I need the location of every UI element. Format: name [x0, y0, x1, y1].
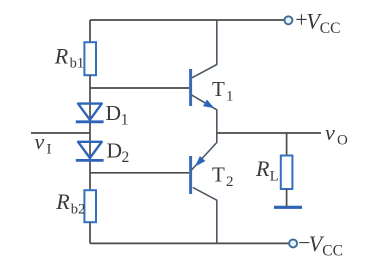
label D1 [106, 101, 129, 129]
resistor Rb2 [84, 190, 96, 222]
svg-text:v: v [325, 120, 335, 145]
svg-text:b2: b2 [71, 201, 86, 217]
svg-text:1: 1 [226, 89, 234, 105]
wire bottom rail [90, 242, 289, 244]
wire output rail [217, 132, 321, 134]
label vI [35, 129, 52, 157]
transistor T1 [191, 20, 217, 133]
wire RL top stub [286, 133, 288, 156]
terminal +VCC [284, 16, 292, 24]
transistor T2 [191, 133, 217, 243]
svg-text:I: I [47, 141, 52, 157]
svg-text:1: 1 [121, 112, 129, 129]
wire vI input stub [31, 132, 90, 134]
label D2 [107, 138, 130, 166]
label vO [325, 120, 348, 149]
label +VCC [295, 7, 340, 37]
svg-text:O: O [337, 133, 348, 149]
svg-text:CC: CC [322, 242, 343, 259]
svg-text:D: D [107, 138, 123, 162]
wire left vertical (top rail to Rb1) [89, 20, 91, 43]
svg-text:R: R [55, 189, 70, 214]
svg-text:R: R [255, 156, 270, 181]
svg-text:D: D [106, 101, 122, 125]
svg-text:T: T [212, 162, 225, 186]
svg-text:T: T [212, 77, 225, 101]
svg-text:v: v [35, 129, 45, 154]
wire T2 base [90, 172, 189, 174]
label Rb1 [54, 43, 84, 71]
wire top rail [90, 19, 285, 21]
label -VCC [298, 230, 343, 259]
svg-text:CC: CC [320, 20, 341, 37]
ground [274, 206, 302, 209]
svg-text:b1: b1 [70, 56, 85, 72]
wire T1 base [90, 87, 189, 89]
wire RL bottom stub [286, 189, 288, 206]
svg-text:2: 2 [122, 149, 130, 166]
resistor Rb1 [84, 42, 96, 75]
label T2 [212, 162, 234, 189]
svg-text:R: R [54, 43, 69, 68]
label T1 [212, 77, 234, 104]
diode D2 [76, 142, 104, 161]
label Rb2 [55, 189, 85, 217]
svg-text:L: L [270, 168, 279, 184]
wire left vertical (Rb2 to bottom rail) [89, 222, 91, 243]
svg-text:2: 2 [226, 174, 234, 190]
label RL [255, 156, 279, 184]
terminal -VCC [289, 239, 297, 247]
wire left vertical (Rb1 through diodes to Rb2) [89, 75, 91, 191]
resistor RL [281, 156, 293, 190]
diode D1 [76, 104, 104, 122]
